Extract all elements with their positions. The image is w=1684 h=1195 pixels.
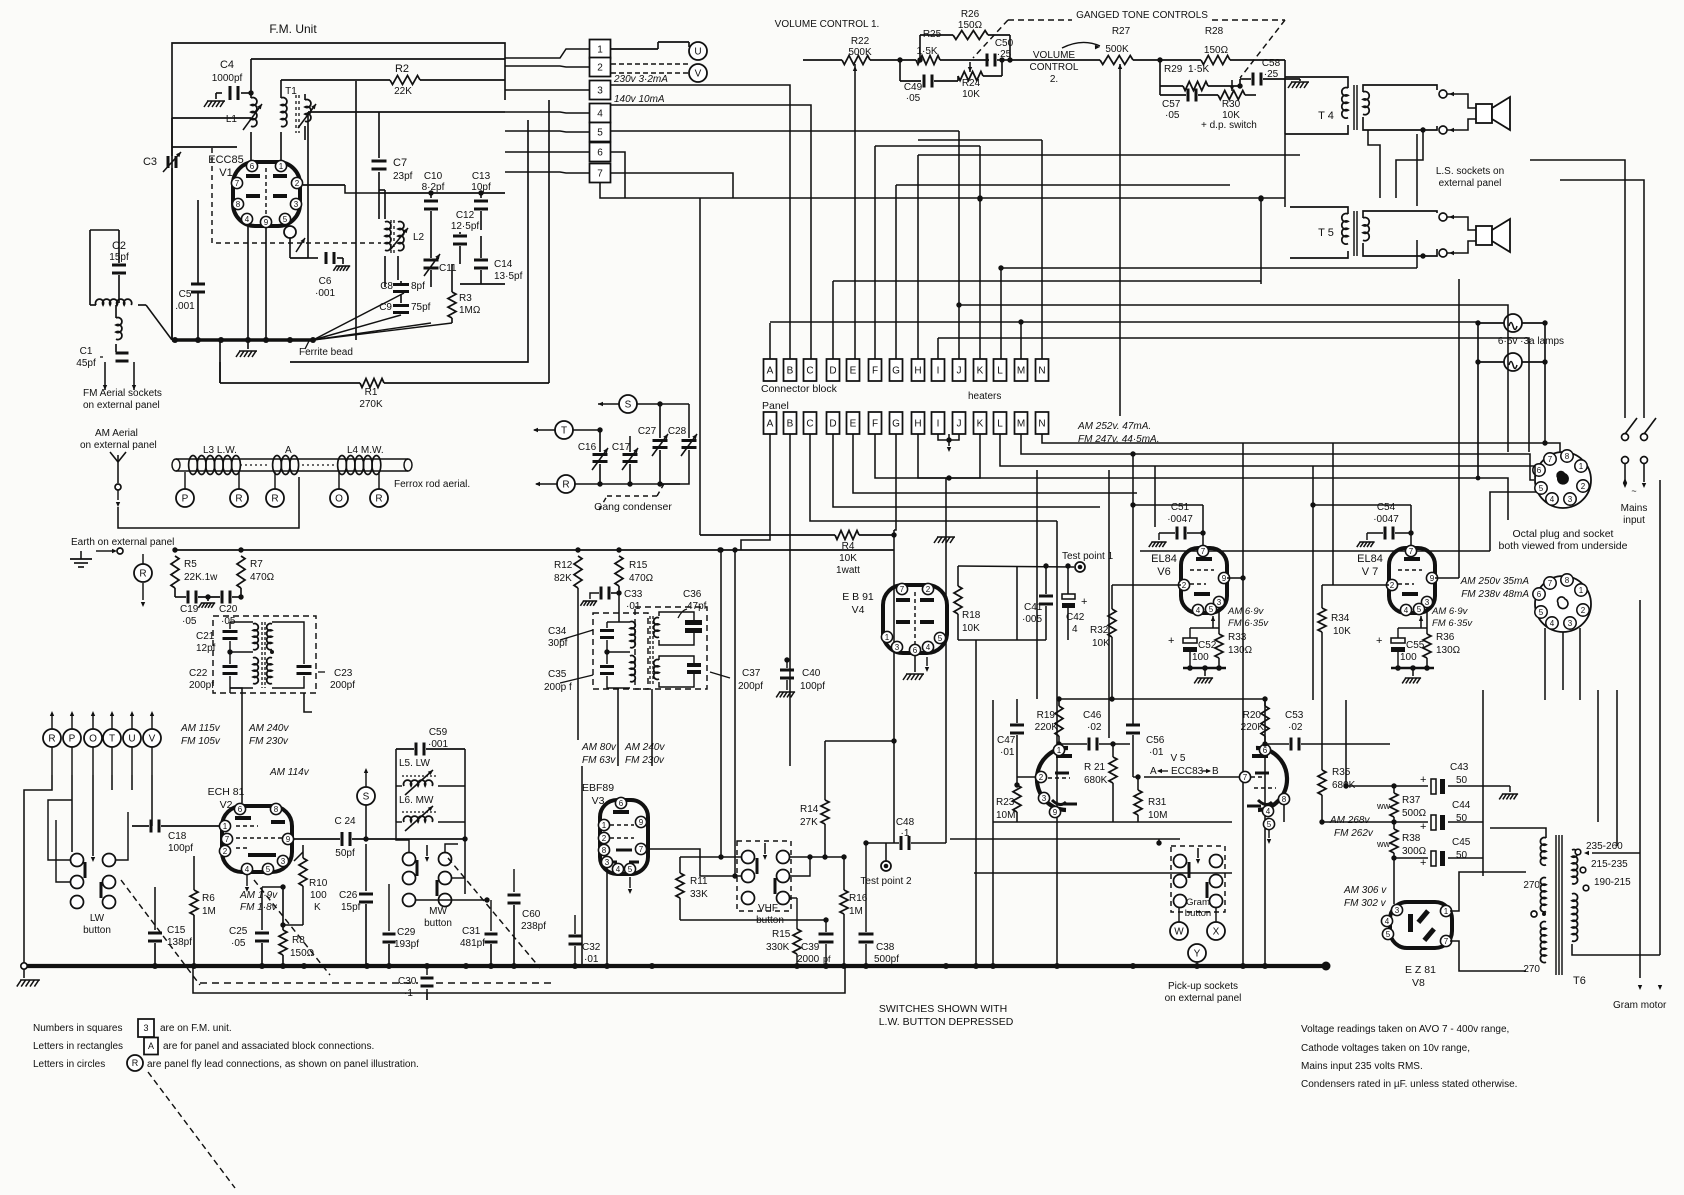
svg-text:both viewed from underside: both viewed from underside (1499, 540, 1628, 552)
V5 pin7 link (1239, 771, 1250, 782)
svg-text:150Ω: 150Ω (1204, 45, 1229, 56)
svg-text:23pf: 23pf (393, 171, 413, 182)
svg-text:1: 1 (1579, 586, 1584, 595)
svg-text:C21: C21 (196, 631, 215, 642)
wire (172, 146, 237, 148)
svg-text:7: 7 (1243, 773, 1248, 782)
wire V8 pins (1445, 878, 1447, 905)
svg-text:100: 100 (1400, 652, 1417, 663)
terminal R3c (266, 489, 284, 507)
wire (308, 111, 505, 113)
svg-text:D: D (829, 366, 836, 377)
wire V7 pin9 (1435, 577, 1459, 579)
svg-text:C52: C52 (1198, 640, 1217, 651)
svg-text:R14: R14 (800, 804, 819, 815)
svg-text:FM 1·8v: FM 1·8v (240, 902, 278, 913)
svg-text:T: T (561, 426, 567, 437)
svg-text:A: A (1150, 766, 1157, 777)
svg-text:H: H (914, 366, 921, 377)
svg-text:Gram motor: Gram motor (1613, 1000, 1667, 1011)
svg-text:9: 9 (639, 818, 644, 827)
svg-text:2: 2 (1581, 606, 1586, 615)
svg-text:R5: R5 (184, 559, 197, 570)
ground heaters (934, 537, 955, 543)
terminal T2 (555, 421, 573, 439)
svg-text:+: + (1081, 596, 1087, 608)
svg-text:5: 5 (1209, 605, 1214, 614)
svg-text:2: 2 (597, 63, 603, 74)
ground (1288, 82, 1309, 88)
wire V5 outputs (1264, 744, 1266, 750)
heater arrow (948, 434, 950, 446)
svg-text:C59: C59 (429, 727, 448, 738)
svg-text:ECC85: ECC85 (208, 154, 243, 166)
svg-text:238pf: 238pf (521, 921, 546, 932)
wire fly lead drops (24, 775, 52, 966)
svg-text:+: + (1168, 635, 1174, 647)
svg-text:FM Aerial sockets: FM Aerial sockets (83, 388, 162, 399)
svg-text:230v 3·2mA: 230v 3·2mA (613, 74, 668, 85)
svg-text:L6. MW: L6. MW (399, 795, 434, 806)
svg-text:C50: C50 (995, 38, 1014, 49)
svg-text:S: S (363, 792, 370, 803)
svg-text:T 4: T 4 (1318, 110, 1334, 122)
svg-text:·05: ·05 (906, 93, 921, 104)
svg-text:L2: L2 (413, 232, 425, 243)
svg-text:500K: 500K (1105, 44, 1129, 55)
svg-text:C31: C31 (462, 926, 481, 937)
wire gram motor (1639, 600, 1641, 978)
svg-text:LW: LW (90, 913, 105, 924)
svg-text:K: K (977, 419, 984, 430)
svg-text:481pf: 481pf (460, 938, 485, 949)
svg-text:T6: T6 (1573, 975, 1586, 987)
terminal S2 (619, 395, 637, 413)
svg-text:C37: C37 (742, 668, 761, 679)
svg-text:270: 270 (1523, 964, 1540, 975)
capacitor C36b (687, 663, 701, 667)
wire L5/L6 frame (395, 786, 397, 822)
svg-text:C49: C49 (904, 82, 923, 93)
svg-text:N: N (1038, 366, 1045, 377)
svg-text:3: 3 (1425, 598, 1430, 607)
svg-text:R35: R35 (1332, 767, 1351, 778)
aerial coupling coil (96, 299, 132, 305)
earth at bus left (23, 969, 25, 978)
svg-text:Test point 2: Test point 2 (860, 876, 912, 887)
wire VHF connections (790, 856, 810, 858)
svg-text:330K: 330K (766, 942, 790, 953)
svg-text:O: O (89, 734, 97, 745)
svg-text:R34: R34 (1331, 613, 1350, 624)
valve V8 EZ81 (1390, 902, 1452, 948)
svg-text:AM Aerial: AM Aerial (95, 428, 138, 439)
svg-text:button: button (424, 918, 452, 929)
V6 arrow (1218, 618, 1220, 625)
svg-text:AM 115v: AM 115v (180, 723, 221, 734)
svg-text:·05: ·05 (231, 938, 246, 949)
LS socket circles T5 (1439, 213, 1447, 221)
svg-text:R: R (375, 494, 382, 505)
dashed bus lower (200, 982, 418, 984)
svg-text:X: X (1213, 927, 1220, 938)
svg-text:G: G (892, 366, 900, 377)
wire midline (736, 843, 866, 920)
svg-text:are panel fly lead connect: are panel fly lead connections, as shown… (147, 1059, 419, 1070)
svg-text:100pf: 100pf (168, 843, 193, 854)
LW button switch (71, 854, 84, 867)
screening can dashed box (212, 148, 381, 243)
svg-text:7: 7 (597, 169, 603, 180)
connector block row (764, 359, 777, 381)
svg-text:EL84: EL84 (1357, 553, 1383, 565)
IF transformer 2 dashed box (593, 613, 648, 689)
terminal Rearth (134, 564, 152, 582)
svg-text:R16: R16 (849, 893, 868, 904)
wire test point 1 (1014, 579, 1080, 581)
svg-text:L.S. sockets on: L.S. sockets on (1436, 166, 1504, 177)
FM aerial socket arrows (104, 362, 106, 390)
ground bus in FM unit (172, 338, 313, 342)
svg-text:ww: ww (1376, 839, 1390, 849)
wire bus to T6 (1476, 476, 1481, 481)
wire V6 pin9 (1227, 577, 1243, 579)
V3 arrow (629, 877, 631, 888)
svg-text:C54: C54 (1377, 502, 1396, 513)
svg-text:C28: C28 (668, 426, 687, 437)
svg-text:R10: R10 (309, 878, 328, 889)
svg-text:C: C (806, 366, 813, 377)
wire crossover columns (894, 434, 896, 530)
loudspeaker 1 (1476, 104, 1492, 123)
svg-text:30pf: 30pf (548, 638, 568, 649)
svg-text:C43: C43 (1450, 762, 1469, 773)
wire IFT2 outputs (693, 611, 695, 613)
svg-text:1watt: 1watt (836, 565, 860, 576)
V6 cathode ground (1183, 667, 1226, 670)
svg-text:V6: V6 (1157, 566, 1170, 578)
svg-text:·01: ·01 (584, 954, 599, 965)
svg-text:9: 9 (1430, 574, 1435, 583)
svg-text:I: I (937, 419, 940, 430)
svg-text:FM 262v: FM 262v (1334, 828, 1374, 839)
svg-text:·005: ·005 (1022, 614, 1042, 625)
svg-text:3: 3 (1568, 619, 1573, 628)
svg-text:on external panel: on external panel (83, 400, 160, 411)
svg-text:ECC83: ECC83 (1171, 766, 1204, 777)
svg-text:·05: ·05 (182, 616, 197, 627)
svg-text:C34: C34 (548, 626, 567, 637)
svg-text:1: 1 (1444, 907, 1449, 916)
svg-text:4: 4 (926, 643, 931, 652)
panel connector row (764, 412, 777, 434)
svg-text:C46: C46 (1083, 710, 1102, 721)
svg-text:6: 6 (619, 799, 624, 808)
svg-text:C33: C33 (624, 589, 643, 600)
svg-text:8: 8 (1565, 576, 1570, 585)
octal plug (1535, 452, 1591, 508)
svg-text:2: 2 (1039, 773, 1044, 782)
svg-text:C55: C55 (1406, 640, 1425, 651)
svg-text:75pf: 75pf (411, 302, 431, 313)
terminal R5c (557, 475, 575, 493)
svg-text:R: R (139, 569, 146, 580)
svg-text:C57: C57 (1162, 99, 1181, 110)
svg-text:O: O (335, 494, 343, 505)
svg-text:VOLUME CONTROL 1.: VOLUME CONTROL 1. (775, 19, 880, 30)
wire T4/T5 risers (1284, 134, 1286, 258)
svg-text:L5. LW: L5. LW (399, 758, 430, 769)
svg-text:4: 4 (1072, 624, 1078, 635)
svg-text:C10: C10 (424, 171, 443, 182)
svg-text:E Z 81: E Z 81 (1405, 964, 1436, 976)
svg-text:100: 100 (310, 890, 327, 901)
svg-text:15pf: 15pf (341, 902, 361, 913)
svg-text:2.: 2. (1050, 74, 1058, 85)
svg-text:150Ω: 150Ω (290, 948, 315, 959)
svg-text:AM 250v 35mA: AM 250v 35mA (1460, 576, 1530, 587)
FM unit box outline (172, 43, 505, 340)
svg-text:200p f: 200p f (544, 682, 572, 693)
svg-text:A: A (767, 366, 774, 377)
svg-text:C8: C8 (380, 281, 393, 292)
svg-text:~: ~ (1631, 486, 1636, 496)
IF transformer 1 dashed box (213, 616, 316, 693)
svg-text:FM 302 v: FM 302 v (1344, 898, 1387, 909)
svg-text:5: 5 (283, 215, 288, 224)
V4 arrow (926, 657, 928, 666)
svg-text:SWITCHES SHOWN WITH: SWITCHES SHOWN WITH (879, 1003, 1007, 1015)
svg-text:2: 2 (1581, 482, 1586, 491)
svg-text:7: 7 (225, 835, 230, 844)
transformer T6 (1555, 835, 1557, 975)
svg-text:C42: C42 (1066, 612, 1085, 623)
svg-text:J: J (957, 419, 962, 430)
svg-text:V: V (695, 69, 702, 80)
svg-text:C25: C25 (229, 926, 248, 937)
wire VHF feed columns (720, 550, 722, 857)
V7 arrow (1420, 616, 1422, 628)
T6 HT winding (1540, 878, 1546, 912)
svg-text:6: 6 (1537, 590, 1542, 599)
svg-text:R27: R27 (1112, 26, 1131, 37)
svg-text:1: 1 (1579, 462, 1584, 471)
svg-text:Pick-up sockets: Pick-up sockets (1168, 981, 1238, 992)
svg-text:235-260: 235-260 (1586, 841, 1623, 852)
svg-text:+: + (1420, 857, 1426, 869)
svg-text:4: 4 (1404, 606, 1409, 615)
svg-text:100pf: 100pf (800, 681, 825, 692)
earth symbol (117, 548, 123, 554)
junction fan from ferrite bead (313, 315, 401, 340)
svg-text:Earth on external panel: Earth on external panel (71, 537, 174, 548)
svg-text:V8: V8 (1412, 977, 1425, 989)
svg-text:45pf: 45pf (76, 358, 96, 369)
svg-text:R38: R38 (1402, 833, 1421, 844)
V2 cathode arrow (246, 875, 248, 886)
svg-text:R 21: R 21 (1084, 762, 1106, 773)
svg-text:T 5: T 5 (1318, 227, 1334, 239)
svg-text:Numbers in squares: Numbers in squares (33, 1023, 122, 1034)
svg-text:C7: C7 (393, 157, 407, 169)
svg-text:Mains input 235 volts RMS.: Mains input 235 volts RMS. (1301, 1061, 1423, 1072)
wire T6 taps (1592, 852, 1640, 854)
svg-text:215-235: 215-235 (1591, 859, 1628, 870)
svg-text:Ferrox rod aerial.: Ferrox rod aerial. (394, 479, 470, 490)
svg-text:ECH 81: ECH 81 (208, 786, 245, 798)
svg-text:7: 7 (1444, 937, 1449, 946)
svg-text:C35: C35 (548, 669, 567, 680)
svg-text:Connector block: Connector block (761, 383, 838, 395)
svg-text:L: L (997, 419, 1003, 430)
svg-text:8: 8 (274, 805, 279, 814)
svg-text:10K: 10K (839, 553, 857, 564)
svg-text:50: 50 (1456, 813, 1468, 824)
VHF button (737, 841, 791, 911)
svg-text:7: 7 (235, 179, 240, 188)
panel fly leads R P O T U V (43, 729, 61, 747)
ferrox rod (176, 458, 408, 460)
svg-text:V1: V1 (219, 167, 232, 179)
svg-text:7: 7 (1548, 455, 1553, 464)
svg-text:L4 M.W.: L4 M.W. (347, 445, 384, 456)
svg-text:L: L (997, 366, 1003, 377)
svg-text:4: 4 (245, 865, 250, 874)
wire horizontal runs mid (1140, 550, 1490, 552)
svg-text:3: 3 (1395, 906, 1400, 915)
svg-text:R19: R19 (1037, 710, 1056, 721)
svg-text:270: 270 (1523, 880, 1540, 891)
svg-text:1M: 1M (849, 906, 863, 917)
svg-text:C3: C3 (143, 156, 157, 168)
svg-text:R33: R33 (1228, 632, 1247, 643)
svg-text:1·5K: 1·5K (1188, 64, 1209, 75)
svg-text:+: + (1420, 821, 1426, 833)
svg-text:CONTROL: CONTROL (1030, 62, 1079, 73)
svg-text:·001: ·001 (315, 288, 335, 299)
HT rail (175, 549, 894, 551)
wire below-bus return (193, 967, 845, 993)
svg-text:+ d.p. switch: + d.p. switch (1201, 120, 1257, 131)
svg-text:N: N (1038, 419, 1045, 430)
svg-text:680K: 680K (1084, 775, 1108, 786)
svg-text:AM 80v: AM 80v (581, 742, 617, 753)
svg-text:C12: C12 (456, 210, 475, 221)
V5B arrow (1268, 830, 1270, 838)
svg-text:E: E (850, 366, 857, 377)
svg-text:2: 2 (1182, 581, 1187, 590)
svg-text:Cathode voltages taken on 1: Cathode voltages taken on 10v range, (1301, 1043, 1470, 1054)
svg-text:F: F (872, 419, 878, 430)
svg-text:ww: ww (1376, 801, 1390, 811)
svg-text:1: 1 (279, 162, 284, 171)
LS socket circles T4 (1439, 90, 1447, 98)
svg-text:R37: R37 (1402, 795, 1421, 806)
svg-text:100: 100 (1192, 652, 1209, 663)
wire C44 row (1322, 821, 1428, 823)
svg-text:Panel: Panel (762, 400, 789, 412)
svg-text:R: R (562, 480, 569, 491)
wire from squares (611, 85, 790, 359)
svg-text:5: 5 (597, 128, 603, 139)
svg-text:V 5: V 5 (1170, 753, 1185, 764)
svg-text:Gram: Gram (1186, 897, 1210, 908)
svg-text:2: 2 (926, 585, 931, 594)
svg-text:12pf: 12pf (196, 643, 216, 654)
terminal P (176, 489, 194, 507)
svg-text:R: R (235, 494, 242, 505)
svg-text:6: 6 (250, 162, 255, 171)
svg-text:C18: C18 (168, 831, 187, 842)
wire (460, 283, 505, 285)
svg-text:6: 6 (1263, 746, 1268, 755)
svg-text:FM 230v: FM 230v (625, 755, 665, 766)
svg-text:C36: C36 (683, 589, 702, 600)
svg-text:MW: MW (429, 906, 447, 917)
wire (289, 340, 291, 362)
svg-text:·01: ·01 (1000, 747, 1015, 758)
svg-text:5: 5 (1417, 605, 1422, 614)
wire long runs to right (875, 434, 1508, 520)
svg-text:R: R (271, 494, 278, 505)
svg-text:F: F (872, 366, 878, 377)
svg-text:13·5pf: 13·5pf (494, 271, 523, 282)
svg-text:1: 1 (885, 633, 890, 642)
svg-text:Ferrite bead: Ferrite bead (299, 347, 353, 358)
svg-text:1: 1 (602, 821, 607, 830)
svg-text:R12: R12 (554, 560, 573, 571)
svg-text:R: R (132, 1058, 139, 1068)
svg-text:50: 50 (1456, 850, 1468, 861)
svg-text:L1: L1 (226, 114, 238, 125)
svg-text:AM 306 v: AM 306 v (1343, 885, 1387, 896)
svg-text:4: 4 (1385, 917, 1390, 926)
svg-text:F.M. Unit: F.M. Unit (269, 22, 317, 36)
V4 ground (914, 656, 916, 672)
svg-text:33K: 33K (690, 889, 708, 900)
svg-text:C39: C39 (801, 942, 820, 953)
svg-text:V: V (149, 734, 156, 745)
svg-text:G: G (892, 419, 900, 430)
svg-text:C23: C23 (334, 668, 353, 679)
terminal R4c (370, 489, 388, 507)
svg-text:6: 6 (1537, 466, 1542, 475)
svg-text:1000pf: 1000pf (212, 73, 243, 84)
wire C43 row (1346, 785, 1428, 787)
svg-text:on external panel: on external panel (1165, 993, 1242, 1004)
svg-text:200pf: 200pf (738, 681, 763, 692)
svg-text:1: 1 (223, 822, 228, 831)
svg-text:I: I (937, 366, 940, 377)
svg-text:10M: 10M (996, 810, 1015, 821)
svg-text:500Ω: 500Ω (1402, 808, 1427, 819)
IFT1 coils (253, 624, 258, 650)
svg-text:C58: C58 (1262, 58, 1281, 69)
svg-text:C51: C51 (1171, 502, 1190, 513)
svg-text:R32: R32 (1090, 625, 1109, 636)
svg-text:3: 3 (1042, 794, 1047, 803)
wire lamps (1478, 322, 1504, 324)
svg-text:6: 6 (238, 805, 243, 814)
svg-text:9: 9 (264, 218, 269, 227)
svg-text:10K: 10K (1333, 626, 1351, 637)
svg-text:50pf: 50pf (335, 848, 355, 859)
svg-text:K: K (314, 902, 321, 913)
lamp 2 (1504, 353, 1522, 371)
svg-text:Voltage readings taken on: Voltage readings taken on AVO 7 - 400v r… (1301, 1024, 1509, 1035)
svg-text:P: P (69, 734, 76, 745)
svg-text:10M: 10M (1148, 810, 1167, 821)
